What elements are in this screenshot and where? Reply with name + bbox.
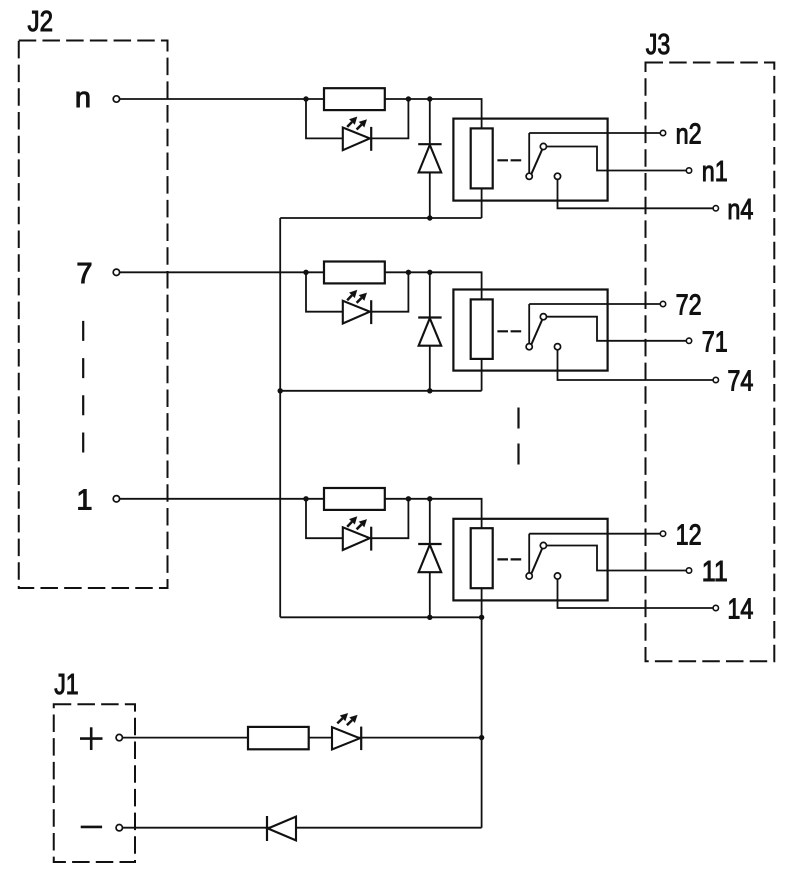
svg-text:7: 7 (76, 258, 92, 290)
svg-text:1: 1 (76, 484, 92, 516)
svg-text:J1: J1 (54, 669, 78, 701)
svg-text:J3: J3 (646, 29, 671, 61)
svg-text:n: n (75, 82, 91, 114)
svg-text:14: 14 (727, 594, 753, 626)
svg-text:72: 72 (676, 290, 702, 322)
svg-text:71: 71 (702, 326, 728, 358)
svg-text:n2: n2 (676, 119, 702, 151)
svg-text:n1: n1 (702, 156, 728, 188)
svg-text:n4: n4 (727, 194, 753, 226)
svg-text:11: 11 (702, 556, 728, 588)
svg-text:12: 12 (676, 519, 702, 551)
svg-text:74: 74 (727, 366, 753, 398)
svg-text:J2: J2 (28, 6, 54, 38)
